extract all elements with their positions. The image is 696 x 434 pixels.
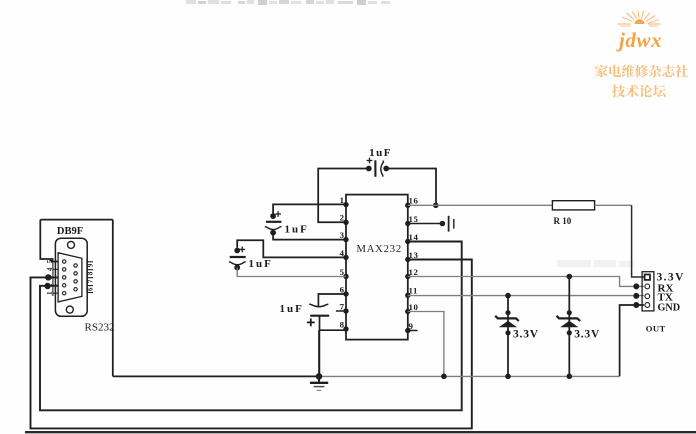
svg-text:5: 5 bbox=[340, 267, 345, 277]
wire C1 bottom to pin 3 bbox=[273, 233, 346, 240]
OUT pin 2 circle RX bbox=[645, 284, 650, 289]
svg-text:11: 11 bbox=[409, 286, 419, 296]
U1 pin 13 bbox=[405, 250, 418, 262]
U1 pin 1 bbox=[340, 195, 349, 207]
svg-text:10: 10 bbox=[409, 302, 419, 312]
DB9 right pin ticks bbox=[87, 259, 93, 293]
svg-text:1: 1 bbox=[340, 195, 344, 205]
junction D1 top bbox=[505, 293, 511, 299]
svg-text:8: 8 bbox=[340, 319, 345, 329]
resistor R10 bbox=[552, 201, 594, 210]
svg-text:4: 4 bbox=[46, 267, 54, 271]
capacitor C2 1uF bbox=[229, 247, 246, 271]
wire C2 bottom to pin 5 bbox=[237, 268, 346, 277]
capacitor C3 1uF bbox=[307, 304, 329, 326]
svg-text:5: 5 bbox=[46, 259, 54, 263]
svg-text:R 10: R 10 bbox=[554, 216, 572, 226]
svg-text:1uF: 1uF bbox=[369, 147, 392, 159]
ground symbol bbox=[310, 376, 328, 390]
wire DB9 pin2 to MAX232 pin14 bbox=[40, 242, 462, 411]
svg-text:6: 6 bbox=[87, 287, 95, 291]
svg-text:8: 8 bbox=[87, 271, 95, 275]
DB9 pin numbers 5 4 3 2 1 (rotated) bbox=[46, 259, 54, 295]
svg-text:jdwx: jdwx bbox=[616, 28, 662, 52]
U1 pin 5 bbox=[340, 267, 349, 279]
wire pin 2 up to charge-pump cap C4 bbox=[318, 169, 369, 223]
connector OUT body bbox=[642, 272, 654, 311]
wire C3/pin8 node down to ground bbox=[318, 330, 320, 376]
U1 pin 15 bbox=[405, 214, 418, 226]
wire ground rail up to OUT GND pin bbox=[620, 305, 644, 376]
svg-text:9: 9 bbox=[87, 263, 95, 267]
svg-text:MAX232: MAX232 bbox=[357, 244, 402, 255]
watermark logo line 家电维修杂志社 bbox=[595, 65, 688, 78]
wire down to OUT 3.3V pin bbox=[632, 205, 645, 277]
svg-text:3.3V: 3.3V bbox=[513, 328, 539, 340]
faint watermark text near R10 bbox=[557, 260, 633, 267]
DB9 left pin ticks bbox=[53, 258, 58, 296]
junction pin10 rail bbox=[441, 374, 447, 380]
U1 pin 12 bbox=[405, 267, 418, 279]
U1 pin 11 bbox=[405, 286, 418, 298]
DB9 pin contacts left column 5,4,3,2,1 bbox=[62, 260, 65, 295]
OUT pin 3 circle TX bbox=[645, 294, 650, 299]
wire C4 right to VCC node bbox=[386, 169, 436, 206]
junction D2 top bbox=[567, 274, 573, 280]
U1 pin 7 bbox=[336, 301, 349, 313]
svg-text:16: 16 bbox=[409, 196, 419, 206]
svg-text:7: 7 bbox=[340, 301, 345, 311]
wire pin 11 to TX bbox=[408, 295, 644, 297]
watermark logo sun rays bbox=[618, 11, 661, 27]
U1 pin 9 bbox=[405, 321, 418, 333]
wire pin 15 to cap C5 bbox=[408, 223, 443, 225]
junction DB9 pin 2 bbox=[44, 283, 50, 289]
wire pin 10 down to ground rail bbox=[408, 312, 444, 377]
zener D1 3.3V bbox=[495, 296, 519, 377]
svg-text:GND: GND bbox=[658, 303, 681, 314]
bottom border bar bbox=[25, 431, 696, 433]
wire pin 6 to C3 top bbox=[318, 294, 346, 306]
capacitor C5 bbox=[440, 216, 454, 232]
svg-text:14: 14 bbox=[409, 232, 419, 242]
DB9 pin contacts right column 9,8,7,6 bbox=[74, 264, 77, 291]
U1 pin 10 bbox=[405, 302, 418, 314]
svg-text:1uF: 1uF bbox=[280, 303, 304, 315]
screw hole top bbox=[68, 241, 75, 248]
junction GND bbox=[633, 302, 639, 308]
wire R10 right lead bbox=[595, 204, 632, 206]
OUT pin 4 circle GND bbox=[645, 303, 650, 308]
faint cropped text strip at top bbox=[186, 0, 390, 5]
svg-text:12: 12 bbox=[409, 267, 419, 277]
svg-text:RS232: RS232 bbox=[85, 321, 115, 333]
junction D2 bottom rail bbox=[567, 374, 573, 380]
U1 pin 4 bbox=[340, 248, 349, 260]
U1 pin 3 bbox=[340, 230, 349, 242]
junction ground node bbox=[316, 373, 323, 380]
junction VCC node bbox=[433, 203, 439, 209]
U1 pin 2 bbox=[340, 213, 349, 225]
wire DB9 pin3 to MAX232 pin13 bbox=[31, 260, 472, 429]
junction RX bbox=[633, 283, 639, 289]
ground rail dark segment bbox=[113, 375, 319, 377]
capacitor C4 1uF bbox=[366, 158, 389, 177]
svg-text:1uF: 1uF bbox=[249, 258, 273, 270]
DB9 pin numbers 9 8 7 6 (rotated) bbox=[87, 263, 95, 291]
screw hole bottom bbox=[66, 306, 73, 313]
zener D2 3.3V bbox=[557, 277, 581, 377]
svg-text:7: 7 bbox=[87, 279, 95, 283]
svg-text:OUT: OUT bbox=[646, 323, 666, 333]
wire pin 16 to R10 bbox=[408, 204, 553, 206]
svg-text:6: 6 bbox=[340, 284, 345, 294]
wire DB9F box right edge down to ground rail bbox=[112, 220, 114, 377]
svg-text:DB9F: DB9F bbox=[57, 226, 83, 237]
OUT pin 1 square 3.3V bbox=[645, 275, 650, 280]
DB9 pin field trapezoid bbox=[58, 253, 82, 302]
svg-text:3.3V: 3.3V bbox=[574, 328, 600, 340]
wire pin 12 to RX bbox=[408, 277, 644, 287]
connector J1 DB9 shell bbox=[55, 238, 87, 316]
junction DB9 pin 3 bbox=[45, 274, 51, 280]
IC U1 MAX232 body bbox=[346, 195, 408, 340]
svg-text:2: 2 bbox=[340, 213, 345, 223]
U1 pin 6 bbox=[340, 284, 349, 296]
ground rail grey segment bbox=[319, 375, 620, 377]
svg-text:15: 15 bbox=[409, 214, 419, 224]
junction TX bbox=[633, 293, 639, 299]
svg-text:9: 9 bbox=[409, 321, 414, 331]
svg-text:4: 4 bbox=[340, 248, 345, 258]
wire C1 top to pin 1 bbox=[273, 204, 346, 216]
wire C3 bottom to pin 8 bbox=[320, 316, 347, 331]
wire pin 4 jog to C2 bbox=[237, 240, 346, 257]
svg-text:3: 3 bbox=[340, 230, 345, 240]
watermark logo line 技术论坛 bbox=[612, 85, 666, 98]
svg-text:13: 13 bbox=[409, 250, 419, 260]
U1 pin 8 bbox=[340, 319, 349, 331]
junction D1 bottom rail bbox=[505, 374, 511, 380]
svg-text:1: 1 bbox=[46, 291, 54, 295]
wire DB9F box top edge bbox=[40, 219, 113, 221]
svg-text:1uF: 1uF bbox=[285, 224, 309, 236]
U1 pin 14 bbox=[405, 232, 418, 244]
U1 pin 16 bbox=[405, 196, 418, 208]
wire DB9F box left edge to DB9 pin 5 bbox=[40, 220, 58, 262]
capacitor C1 1uF bbox=[265, 211, 282, 235]
